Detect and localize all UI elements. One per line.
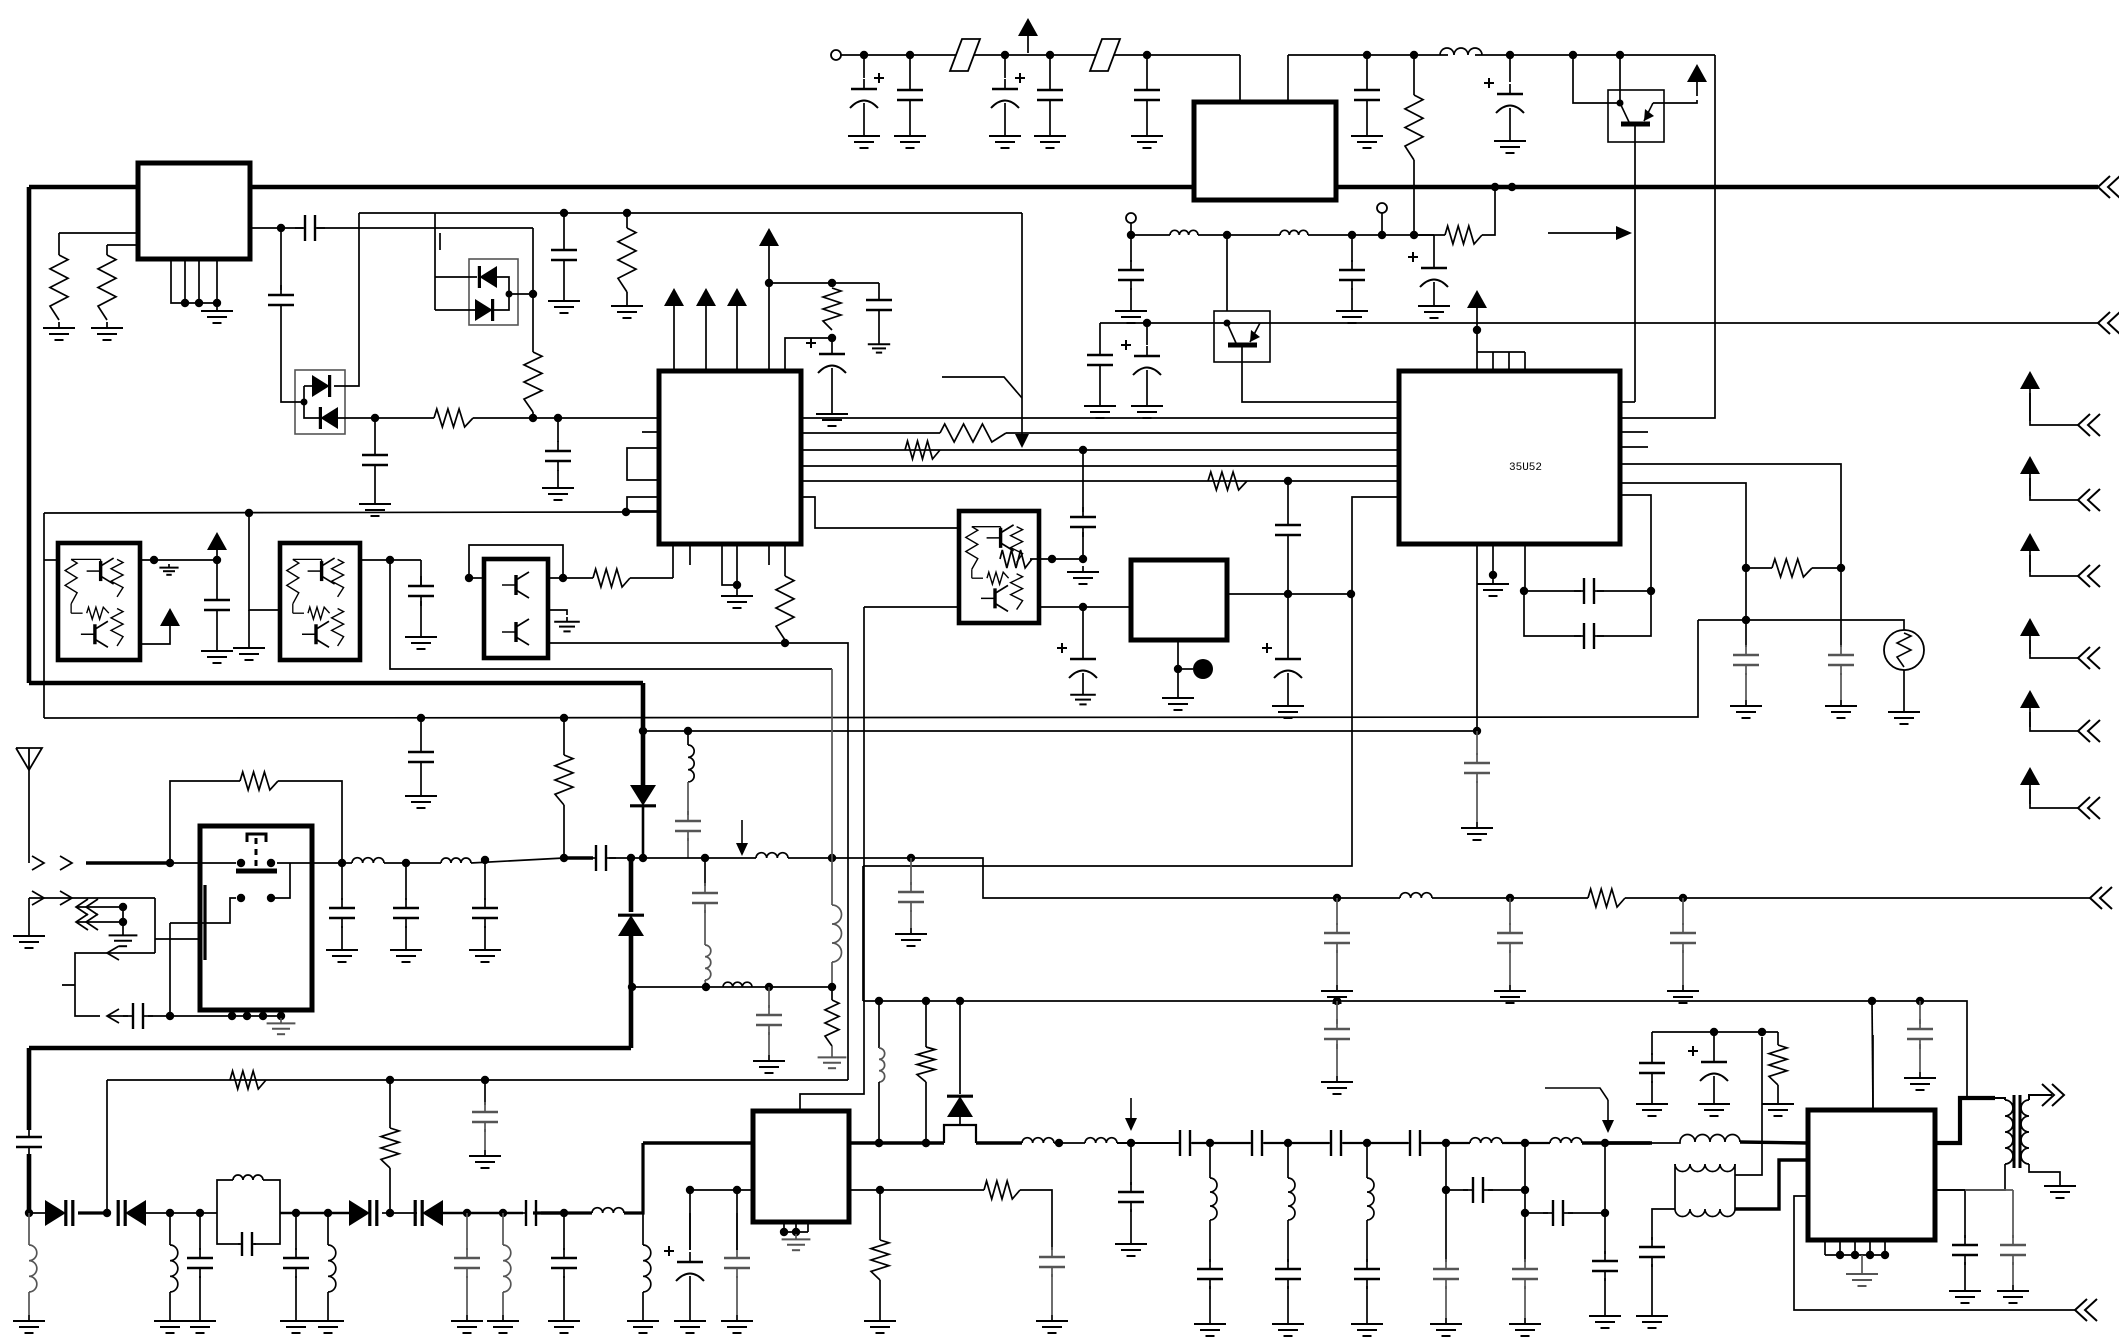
U4 top stub x1525 <box>1524 352 1526 371</box>
relay contact a <box>237 859 245 867</box>
ferrite bead FB1 <box>950 39 980 71</box>
wire arrow3 <box>76 906 123 908</box>
lead2 cap x769 <box>768 1032 770 1055</box>
junction y718 x564 <box>560 714 568 722</box>
junction x564 y858 <box>560 854 568 862</box>
inductor L5 <box>592 1208 624 1213</box>
ground shunt x485 <box>469 944 501 962</box>
resistor R y480 <box>1208 472 1247 490</box>
U3 bottom pin x737 <box>736 544 738 590</box>
ground x1131 <box>1115 1238 1147 1256</box>
wire chev y576 <box>2030 555 2078 576</box>
wire y578 <box>548 577 593 579</box>
ground x1493 <box>1477 578 1509 596</box>
ground x1052 <box>1036 1315 1068 1333</box>
junction x29 y1213 <box>25 1209 33 1217</box>
U3 left bracket2 <box>627 497 659 511</box>
U5 right pin <box>1227 593 1351 595</box>
capacitor C y898 x1683 <box>1670 923 1696 953</box>
resistor R x926 <box>917 1047 935 1082</box>
polarized capacitor C x1510 <box>1484 78 1524 116</box>
ground y898 x1510 <box>1494 985 1526 1003</box>
chain y1213 d <box>280 1212 352 1215</box>
VCC arrow x768 <box>759 228 779 264</box>
resistor R x832b <box>825 1000 839 1046</box>
shunt x1131 <box>1130 1143 1132 1185</box>
wire D2 to chain b <box>532 412 534 419</box>
Q6 gnd stub <box>548 610 567 615</box>
rail y235 b <box>1198 234 1280 236</box>
junction y1080 x390 <box>386 1076 394 1084</box>
U7 gnd stem <box>1861 1255 1863 1268</box>
junction x832 y283 <box>828 279 836 287</box>
resistor R y1190 <box>984 1181 1020 1199</box>
wire x390 vertical b <box>389 1168 391 1213</box>
junction x832 y858 <box>828 854 836 862</box>
ground cap x372 <box>359 498 391 516</box>
U7 top pin <box>1872 1035 1874 1110</box>
ground x879 area <box>868 340 890 353</box>
ground below cap x1005 <box>989 130 1021 148</box>
U4 top stub x1493 <box>1492 352 1494 371</box>
RF chain y863 <box>312 862 352 864</box>
test point TP1 <box>1193 659 1213 679</box>
ground shunt C x467 <box>451 1315 483 1333</box>
ground x1841 <box>1825 700 1857 718</box>
U6 bottom pin c <box>807 1222 809 1232</box>
U4 pin y418 right <box>1620 55 1715 418</box>
capacitor C shunt x296 <box>283 1248 309 1278</box>
wire R2 top <box>106 245 108 255</box>
junction top rail x910 <box>906 51 914 59</box>
connector chevron y425 <box>2078 414 2100 436</box>
capacitor C series a <box>1170 1130 1200 1156</box>
lead2 cap x1050 <box>1049 110 1051 130</box>
ground x421 <box>405 790 437 808</box>
capacitor C shunt2 x1288 <box>1275 1259 1301 1289</box>
ground y1016 <box>267 1018 296 1034</box>
capacitor C shunt2 x1367 <box>1354 1259 1380 1289</box>
x485 capcol2 <box>484 1129 486 1150</box>
chain y1143 h <box>1605 1141 1652 1144</box>
U5 bottom pin <box>1177 640 1179 692</box>
VCC arrow right y456 <box>2020 456 2040 496</box>
wire diag y377 <box>942 377 1022 398</box>
junction x769 y283 <box>765 279 773 287</box>
RF input wire <box>86 861 170 864</box>
x926 col <box>925 1001 927 1047</box>
wire x1052 gnd <box>1051 1274 1053 1315</box>
ground x421b <box>405 631 437 649</box>
junction top rail x1147 <box>1143 51 1151 59</box>
capacitor C x1652c <box>1639 1237 1665 1267</box>
junction y1213 x467 <box>463 1209 471 1217</box>
wire U2 out2 <box>317 227 533 229</box>
out arrow 4a <box>76 914 98 930</box>
IC U4 35U52 <box>1399 371 1620 544</box>
ground x2013 <box>1997 1285 2029 1303</box>
inductor L shunt x1210 <box>1210 1178 1217 1220</box>
x1965 col <box>1964 1190 1966 1238</box>
resistor R x1414 <box>1405 95 1423 160</box>
diode D8 varactor <box>118 1200 146 1226</box>
ground x1352b <box>1336 305 1368 323</box>
lead cap x879 <box>878 283 880 290</box>
junction x1841 y568 <box>1837 564 1845 572</box>
capacitor C x1337b <box>1324 1019 1350 1049</box>
capacitor C x1525 <box>1512 1259 1538 1289</box>
shunt x1288 c <box>1287 1286 1289 1318</box>
arrow down y858 <box>736 820 748 856</box>
capacitor C y591 <box>1574 578 1604 604</box>
wire D2 left2 <box>435 309 477 311</box>
capacitor C x1083 <box>1070 507 1096 537</box>
thick bus bottom <box>29 1046 631 1051</box>
ground shunt C x690 <box>674 1315 706 1333</box>
x1652 col <box>1651 1032 1653 1055</box>
junction y235 x1227 <box>1223 231 1231 239</box>
relay pin x247 <box>246 1010 248 1016</box>
capacitor C at x910 <box>897 80 923 110</box>
connector chevron y576 <box>2078 565 2100 587</box>
junction x217 y560 <box>213 556 221 564</box>
relay internal wire4 <box>271 863 290 898</box>
junction y987 x632 <box>628 983 636 991</box>
U4 top pin x1477 <box>1476 330 1478 371</box>
inductor L shunt x29 <box>29 1245 37 1292</box>
balun right out <box>1735 1037 1762 1175</box>
x879 col2 <box>878 1082 880 1143</box>
ground shunt2 x1288 <box>1272 1318 1304 1336</box>
junction top rail x1510 <box>1506 51 1514 59</box>
lead2 polcap x1510 <box>1509 116 1511 135</box>
wire U2 out <box>250 227 303 229</box>
capacitor C shunt x406 <box>393 898 419 928</box>
connector chevron y731 <box>2078 720 2100 742</box>
junction x390 y560 <box>386 556 394 564</box>
capacitor C x29 <box>16 1127 42 1157</box>
junction y1213 x296 <box>292 1209 300 1217</box>
junction x123 y922 <box>119 918 127 926</box>
junction y1213 x328 <box>324 1209 332 1217</box>
x1652 col3 <box>1651 1213 1653 1240</box>
polarized capacitor C x1083b <box>1057 643 1097 681</box>
capacitor C series b <box>1242 1130 1272 1156</box>
wire y591 b <box>1597 590 1651 592</box>
chain y1143 f <box>1502 1142 1550 1144</box>
U6 bottom pin b <box>795 1222 797 1232</box>
junction x737 y1190 <box>733 1186 741 1194</box>
capacitor C x705 <box>692 883 718 913</box>
x1652 col2 <box>1651 1081 1653 1098</box>
Q2 out right <box>140 559 217 561</box>
U6 left pin y1190 <box>690 1189 753 1191</box>
capacitor C x1131 <box>1118 1182 1144 1212</box>
wire Q1 collector <box>1619 55 1621 103</box>
wire y578 b <box>630 577 673 579</box>
junction U3 gnd <box>733 581 741 589</box>
junction x1493 y575 <box>1489 571 1497 579</box>
chain y1213 h <box>533 1211 592 1214</box>
arrow onto line y450 <box>1015 434 1029 448</box>
wire y636 b <box>1597 591 1651 636</box>
RF chain y863 b <box>384 862 441 864</box>
diode D2b <box>475 299 493 321</box>
junction top rail x1005 <box>1001 51 1009 59</box>
ground x217 <box>201 645 233 663</box>
ground y898 x1683 <box>1667 985 1699 1003</box>
junction U7 gnd x1855 <box>1851 1251 1859 1259</box>
line y433 <box>801 432 940 434</box>
lead cap x911 <box>910 858 912 885</box>
junction y1080 x485 <box>481 1076 489 1084</box>
junction x1651 y591 <box>1647 587 1655 595</box>
bridge y1190 b <box>1488 1189 1525 1191</box>
transistor Q10 <box>1227 323 1260 345</box>
ground x880 <box>864 1315 896 1333</box>
capacitor C x1965 <box>1952 1235 1978 1265</box>
x832 col <box>831 669 833 905</box>
ground x29 <box>13 930 45 948</box>
resistor R x627 <box>618 228 636 292</box>
U6 pin y1190 right <box>849 1189 880 1191</box>
lead polcap x1434 <box>1433 235 1435 258</box>
junction D2 internal <box>506 291 513 298</box>
thick left vert bottom <box>27 1048 32 1130</box>
junction bus x1495 <box>1491 183 1499 191</box>
wire y568 a <box>1746 567 1772 569</box>
capacitor C shunt x737 <box>724 1248 750 1278</box>
lead2 res x627 <box>626 292 628 300</box>
IC U7 bottom right <box>1808 1110 1935 1240</box>
lead shunt L x503 <box>502 1213 504 1245</box>
junction x1510 y898 <box>1506 894 1514 902</box>
shunt x1525 b <box>1524 1286 1526 1318</box>
resistor R Q8 out <box>1000 550 1032 568</box>
x737 col <box>736 1190 738 1250</box>
wire RT1 gnd <box>1903 670 1905 706</box>
junction x406 y863 <box>402 859 410 867</box>
U3 top pin x706 <box>705 322 707 371</box>
lead2 cap x421 <box>420 772 422 790</box>
inductor L10 balun top <box>1680 1135 1740 1142</box>
junction x1052 y559 <box>1048 555 1056 563</box>
junction x1605 y1213 <box>1601 1209 1609 1217</box>
junction x1683 y898 <box>1679 894 1687 902</box>
capacitor C x372 <box>362 445 388 475</box>
ground x1525 <box>1509 1318 1541 1336</box>
lead shunt L x29 <box>28 1213 30 1245</box>
ground x1778 <box>1762 1098 1794 1116</box>
wire top rail right <box>1288 54 1448 56</box>
junction x1083 y559 <box>1079 555 1087 563</box>
capacitor C x1477 <box>1464 753 1490 783</box>
junction y1001 x1920 <box>1916 997 1924 1005</box>
wire Q1 right to VCC <box>1653 100 1697 103</box>
lead shunt C x737 <box>736 1213 738 1250</box>
junction x1525 y591 <box>1520 587 1528 595</box>
lead res x627 <box>626 213 628 228</box>
connector chevron y898 <box>2090 887 2112 909</box>
ground x1337b <box>1321 1076 1353 1094</box>
transformer T1 windings <box>2005 1095 2029 1168</box>
wire x44 vertical <box>43 513 45 718</box>
junction y235 x1382 <box>1378 231 1386 239</box>
bus VCC thick left <box>29 185 138 190</box>
arrow down x1608 <box>1545 1088 1614 1133</box>
wire y1190 ext <box>1965 1189 2013 1191</box>
wire into Q2 box <box>44 559 58 561</box>
wire res to U3 <box>473 417 659 419</box>
junction x107 y1213 <box>103 1209 111 1217</box>
capacitor C x1652b <box>1639 1053 1665 1083</box>
capacitor C x421 <box>408 742 434 772</box>
shunt x1210 b <box>1209 1220 1211 1262</box>
U7 bottom pin x1855 <box>1854 1240 1856 1255</box>
relay internal wire3 <box>200 898 236 923</box>
ground x1477 <box>1461 822 1493 840</box>
capacitor C x879 <box>866 290 892 320</box>
rail y235 a <box>1131 234 1170 236</box>
capacitor C x769 <box>756 1005 782 1035</box>
wire into box3 <box>469 577 484 579</box>
junction x1477 y330 <box>1473 326 1481 334</box>
box3 bypass loop <box>469 545 563 578</box>
x2013 col <box>2012 1190 2014 1238</box>
shunt x1288 a <box>1287 1143 1289 1178</box>
chain y1213 b <box>78 1211 107 1214</box>
balun left link <box>1674 1164 1676 1209</box>
x2013 col2 <box>2012 1262 2014 1285</box>
line y418 <box>801 417 1399 419</box>
capacitor C x1841 <box>1828 645 1854 675</box>
x1714 col2 <box>1713 1084 1715 1098</box>
VCC arrow U3 x674 <box>664 288 684 322</box>
wire y591 <box>1524 590 1581 592</box>
junction x1525 y1190 <box>1521 1186 1529 1194</box>
bridge y1213 <box>1525 1212 1548 1214</box>
junction top rail x1367 <box>1363 51 1371 59</box>
transistor pair box Q8/Q9 <box>959 511 1039 623</box>
lead shunt C x296 <box>295 1213 297 1250</box>
junction x1288 y1143 <box>1284 1139 1292 1147</box>
junction x643 y858 <box>639 854 647 862</box>
wire polcap x1083 <box>1082 607 1084 649</box>
line y1080 <box>107 1079 848 1081</box>
ground small Q2 <box>159 564 178 575</box>
junction U7 gnd x1870 <box>1866 1251 1874 1259</box>
wire vert x1022 <box>1021 213 1023 440</box>
out arrow 5 <box>107 946 119 960</box>
thick diode path down2 <box>642 806 645 858</box>
U7 y1190 caps <box>1935 1189 1965 1191</box>
relay RL1 <box>200 826 312 1010</box>
junction U6 gnd a <box>780 1228 788 1236</box>
arrow down x1131 <box>1125 1098 1137 1131</box>
ground U5 <box>1162 692 1194 710</box>
transistor Q1 <box>1620 103 1654 124</box>
relay contact d <box>267 894 275 902</box>
x1652 col4 <box>1651 1264 1653 1310</box>
ground shunt L x643 <box>627 1315 659 1333</box>
capacitor C series c <box>1321 1130 1351 1156</box>
transistor Q10 box <box>1214 311 1270 362</box>
capacitor C coupling x281 <box>268 285 294 315</box>
inductor L shunt x1288 <box>1288 1178 1295 1220</box>
inductor L12 balun bot <box>1675 1209 1735 1217</box>
polarized capacitor C x1714 <box>1688 1046 1728 1084</box>
junction y1001 x960 <box>956 997 964 1005</box>
chain y1143 b <box>1192 1142 1250 1144</box>
capacitor C x1446 <box>1433 1259 1459 1289</box>
lead2 cap x421b <box>420 601 422 631</box>
U6 out y1143 <box>849 1141 944 1144</box>
junction x342 y863 <box>338 859 346 867</box>
ground x1147 <box>1131 130 1163 148</box>
wire x155 to relay <box>155 938 200 940</box>
junction RF in x170 <box>166 859 174 867</box>
resistor R x832 <box>823 288 841 330</box>
lead polcap x1147 <box>1146 323 1148 345</box>
ground x485b <box>469 1150 501 1168</box>
line y433 b <box>1006 432 1399 434</box>
x832 col4 <box>831 1046 833 1052</box>
ground U3 bottom <box>721 590 753 608</box>
wire x688 seg2 <box>687 782 689 815</box>
diode D10 varactor <box>415 1200 443 1226</box>
U3 bottom pin x769 <box>768 544 770 565</box>
transistor pair box Q6/Q7 <box>484 559 548 658</box>
lead2 shunt C x296 <box>295 1276 297 1315</box>
lead2 cap x864 <box>863 111 865 130</box>
capacitor C x1288 <box>1275 515 1301 545</box>
wire x1288 seg <box>1287 481 1289 515</box>
wire x249 down <box>249 513 280 610</box>
ground R2 <box>91 322 123 340</box>
lead cap x769 <box>768 987 770 1008</box>
wire y1190 b <box>880 1189 984 1191</box>
VCC arrow right y371 <box>2020 371 2040 421</box>
polarized capacitor C at x864 <box>850 73 884 111</box>
lead cap x864 <box>863 55 865 78</box>
Q2 out bottom <box>140 640 170 644</box>
x1337 capcol2 <box>1336 1044 1338 1076</box>
lead cap y898 x1337 <box>1336 898 1338 925</box>
lead2 cap x1367 <box>1366 110 1368 130</box>
x960 col <box>959 1001 961 1094</box>
junction Q10 base <box>1224 320 1231 327</box>
junction x1714 y1032 <box>1710 1028 1718 1036</box>
IC U5 small <box>1131 560 1227 640</box>
wire chev y425 <box>2030 393 2078 425</box>
U7 bottom pin x1825 <box>1824 1240 1826 1255</box>
bypass loop right <box>278 781 342 863</box>
lead2 cap x372 <box>374 475 376 498</box>
relay pin x232 <box>231 1010 233 1016</box>
VCC arrow U3 x737 <box>727 288 747 322</box>
chain y1143 e <box>1422 1142 1470 1144</box>
U4 bottom x1477 <box>1476 544 1478 731</box>
wire x217 down <box>216 560 218 590</box>
wire x1288 gnd <box>1287 681 1289 700</box>
capacitor C x1147 <box>1134 80 1160 110</box>
ground x1083b <box>1070 690 1096 704</box>
capacitor C x1052 <box>1039 1247 1065 1277</box>
U3 pin x785 up <box>785 338 832 371</box>
junction U6 gnd b <box>792 1228 800 1236</box>
VCC arrow right y767 <box>2020 767 2040 804</box>
junction x1131 y1143 <box>1127 1139 1135 1147</box>
